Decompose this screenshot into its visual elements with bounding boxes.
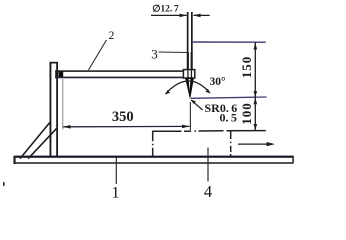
right dimension line x255 <box>254 42 258 130</box>
svg-text:30°: 30° <box>209 76 226 88</box>
top reference line y42 <box>192 41 266 43</box>
svg-text:∅12. 7: ∅12. 7 <box>152 5 179 15</box>
svg-text:350: 350 <box>112 109 134 125</box>
label 1 leader <box>115 157 117 184</box>
rod 3 <box>187 12 193 70</box>
svg-text:100: 100 <box>239 102 254 125</box>
label 4 leader <box>207 148 209 182</box>
svg-text:3: 3 <box>151 47 158 62</box>
350 right extension line (below tip) <box>189 102 191 130</box>
base plate 1 <box>13 156 294 164</box>
diagonal brace <box>20 123 57 159</box>
svg-text:0. 5: 0. 5 <box>220 110 237 124</box>
specimen left edge dash-dot <box>152 131 154 156</box>
support post <box>50 62 59 157</box>
svg-text:2: 2 <box>109 30 115 42</box>
motion arrow right <box>238 142 275 146</box>
svg-text:4: 4 <box>204 182 212 199</box>
arm 2 <box>55 70 185 78</box>
cone tip <box>185 78 194 99</box>
svg-text:1: 1 <box>112 185 120 200</box>
clamp screw on arm <box>58 72 63 77</box>
specimen right edge dash-dot <box>230 131 232 157</box>
collar / chuck <box>183 70 194 78</box>
svg-text:150: 150 <box>239 56 254 79</box>
dia 12.7 dimension line right + arrow <box>193 14 209 18</box>
350 dimension line with arrows <box>63 125 189 129</box>
tip level line y97.5 <box>191 97 267 98</box>
350 left extension line <box>62 79 64 130</box>
30 degree angle arc <box>165 81 210 94</box>
label 3 leader <box>159 51 188 54</box>
specimen top line (solid then dash-dot) <box>152 130 265 133</box>
dia 12.7 dimension line left + arrow <box>151 14 187 18</box>
SR0.6 leader with arrow <box>191 100 203 111</box>
label 2 leader <box>89 40 107 70</box>
stray ink speck bottom left <box>3 182 5 187</box>
